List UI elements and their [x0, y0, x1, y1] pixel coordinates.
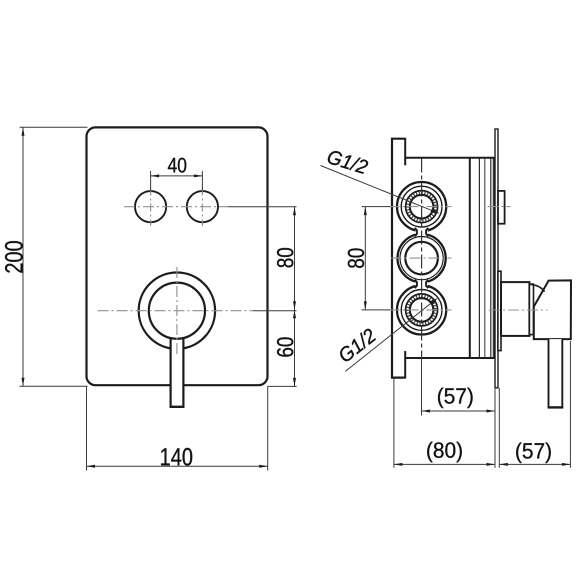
top fixing tab	[498, 191, 505, 224]
side view body block	[405, 158, 495, 358]
escutcheon plate	[495, 129, 498, 388]
dimension (57) top	[422, 357, 496, 416]
dimension (80)	[394, 379, 495, 468]
extension lines below plate	[495, 388, 499, 468]
stem strip behind handle	[498, 271, 501, 350]
dimension 80 / 60 right of front view	[268, 207, 297, 387]
neck between top and middle port	[415, 228, 429, 236]
thin section lines	[479, 159, 493, 358]
side dimension 80	[348, 207, 390, 310]
button circle right	[187, 191, 218, 222]
handle body	[530, 280, 571, 339]
horizontal centerline middle port	[391, 257, 452, 259]
centerline through small buttons	[124, 188, 297, 227]
side view mounting flange	[392, 139, 405, 378]
neck between middle and bottom port	[415, 280, 429, 288]
middle port	[398, 234, 446, 282]
knob centerlines	[98, 267, 297, 356]
dimension 40	[151, 158, 203, 191]
handle base cylinder	[501, 282, 529, 336]
knob outer circle	[139, 273, 215, 349]
dimension 140	[87, 386, 268, 471]
handle neck	[529, 284, 533, 335]
dimension 200	[5, 127, 88, 386]
horizontal centerline top port	[389, 206, 511, 208]
bottom port G1/2	[397, 285, 446, 334]
top port G1/2	[397, 182, 446, 231]
body divider line	[469, 159, 471, 358]
flange right edge stubs	[404, 138, 406, 379]
G1/2 label top	[321, 149, 440, 214]
horizontal centerline bottom port	[389, 309, 452, 311]
knob inner circle	[149, 283, 205, 339]
front view wall plate	[87, 127, 268, 385]
G1/2 label bottom	[337, 298, 438, 371]
handle centerline	[489, 309, 548, 311]
button circle left	[135, 191, 166, 222]
dimension (57) right	[499, 341, 570, 468]
port vertical centerline	[421, 159, 423, 357]
lever front view	[170, 337, 185, 408]
handle lever	[548, 339, 564, 408]
